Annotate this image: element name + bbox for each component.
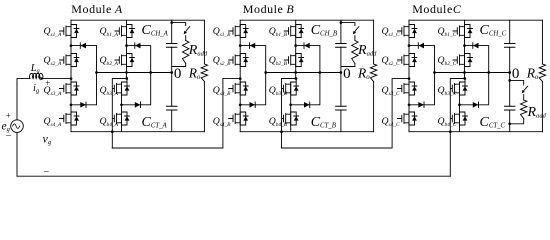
label Qb3_C [438, 85, 457, 97]
label Qb1_A [100, 26, 119, 38]
diode clamp upper second module B [304, 43, 310, 49]
svg-text:Qs1_A: Qs1_A [44, 26, 62, 38]
transistor Qs4_A [60, 112, 79, 125]
arrow R_add_C current [522, 86, 528, 93]
resistor R_o_C in right rail [539, 20, 545, 132]
node second leg mid junction module B [295, 77, 298, 80]
svg-text:Qb2_C: Qb2_C [438, 55, 457, 67]
wire second leg lower module C [460, 79, 466, 132]
label Qs2_B [213, 55, 231, 67]
diode clamp lower left module B [250, 102, 256, 108]
svg-text:Qb4_B: Qb4_B [269, 116, 288, 128]
node second leg mid junction module A [125, 77, 128, 80]
ac source eg [11, 84, 24, 176]
svg-text:vg: vg [43, 132, 52, 147]
svg-text:Qb1_B: Qb1_B [269, 26, 288, 38]
wire bottom bus module A [71, 131, 204, 133]
svg-text:Qs2_A: Qs2_A [44, 55, 62, 67]
wire interconnect module B to next [282, 77, 411, 148]
node 0 module C [512, 66, 520, 82]
transistor Qb4_C [451, 112, 468, 125]
transistor Qb4_B [282, 112, 299, 125]
label Qb3_B [269, 85, 288, 97]
svg-text:−: − [6, 131, 12, 142]
resistor R_add_A [170, 21, 189, 66]
label Qb4_C [438, 116, 457, 128]
svg-text:Module B: Module B [243, 2, 295, 16]
label Qb4_B [269, 116, 288, 128]
svg-text:Qb3_A: Qb3_A [100, 85, 119, 97]
capacitor C_CT_A [167, 106, 177, 110]
transistor Qs3_C [398, 82, 417, 95]
wire capacitor rail module C [509, 20, 511, 132]
diode clamp lower second module C [473, 102, 479, 108]
wire capacitor rail module B [340, 20, 342, 132]
node 0 module B [343, 66, 351, 82]
svg-text:CCT_B: CCT_B [311, 115, 336, 130]
svg-text:Ro: Ro [526, 66, 539, 82]
resistor R_add_C [508, 79, 527, 125]
transistor Qb1_B [284, 25, 303, 38]
diode clamp upper left module A [80, 43, 86, 49]
wire left leg module C [408, 20, 410, 132]
arrow R_add_B current [353, 27, 359, 35]
svg-text:ModuleC: ModuleC [412, 2, 462, 16]
transistor Qs1_A [60, 25, 79, 38]
diode clamp upper second module A [135, 43, 141, 49]
wire second leg jog module C [449, 79, 465, 177]
label - (source) [6, 131, 12, 142]
transistor Qs2_B [229, 54, 248, 67]
wire clamp chain second leg module C [458, 44, 489, 106]
label Qs1_A [44, 26, 62, 38]
node 0 module A [174, 66, 182, 82]
transistor Qs4_B [229, 112, 248, 125]
label R_add_B [357, 43, 377, 58]
capacitor C_CH_B [336, 44, 346, 48]
label Qb2_A [100, 55, 119, 67]
label Qs3_B [213, 85, 231, 97]
wire top rail module A [71, 19, 204, 21]
label C_CH_B [311, 23, 337, 38]
svg-text:Qs4_C: Qs4_C [382, 116, 400, 128]
transistor Qs4_C [398, 112, 417, 125]
Module C title [412, 2, 462, 16]
label R_o_C [526, 66, 539, 82]
svg-text:Qb3_B: Qb3_B [269, 85, 288, 97]
svg-text:CCT_A: CCT_A [142, 115, 168, 130]
transistor Qs3_A [60, 82, 79, 95]
transistor Qb1_A [115, 25, 134, 38]
label - (vg) [44, 166, 50, 177]
label Qs2_A [44, 55, 62, 67]
label R_add_A [188, 43, 208, 58]
svg-text:Qb2_A: Qb2_A [100, 55, 119, 67]
svg-text:Module A: Module A [71, 2, 123, 16]
wire clamp chain left leg module C [408, 44, 435, 106]
transistor Qb3_B [282, 82, 299, 95]
resistor R_o_B in right rail [370, 20, 376, 132]
diode clamp upper left module C [418, 43, 424, 49]
svg-text:Qs2_B: Qs2_B [213, 55, 231, 67]
capacitor C_CH_A [167, 44, 177, 48]
label R_add_C [527, 105, 547, 120]
svg-text:Qb3_C: Qb3_C [438, 85, 457, 97]
svg-text:Qs4_B: Qs4_B [213, 116, 231, 128]
label Qs4_B [213, 116, 231, 128]
capacitor C_CT_B [336, 106, 346, 110]
svg-text:Ro: Ro [188, 66, 201, 82]
wire inductor to module A with ig arrow [40, 77, 72, 80]
transistor Qb3_C [451, 82, 468, 95]
svg-text:Ro: Ro [357, 66, 370, 82]
wire second leg lower module B [291, 79, 297, 132]
wire bottom bus module C [409, 131, 542, 133]
transistor Qb2_B [284, 54, 303, 67]
capacitor C_CH_C [505, 44, 515, 48]
label Qs2_C [382, 55, 400, 67]
transistor Qs1_C [398, 25, 417, 38]
diode clamp lower left module C [418, 102, 424, 108]
resistor R_o_A in right rail [201, 20, 207, 132]
wire bottom return [17, 175, 450, 177]
svg-text:0: 0 [174, 66, 182, 82]
wire top rail module B [240, 19, 373, 21]
wire clamp chain left leg module B [239, 44, 266, 106]
wire clamp chain left leg module A [70, 44, 97, 106]
label R_o_B [357, 66, 370, 82]
wire interconnect module A to next [112, 77, 241, 148]
svg-text:Radd: Radd [527, 105, 547, 120]
transistor Qb3_A [113, 82, 130, 95]
svg-text:Qb4_A: Qb4_A [100, 116, 119, 128]
transistor Qb2_A [115, 54, 134, 67]
transistor Qb2_C [453, 54, 472, 67]
wire second leg jog module A [111, 79, 127, 149]
svg-text:Qs4_A: Qs4_A [44, 116, 62, 128]
label Qb2_B [269, 55, 288, 67]
label Qs4_A [44, 116, 62, 128]
svg-text:Lg: Lg [30, 63, 40, 75]
transistor Qb4_A [113, 112, 130, 125]
label Qs3_C [382, 85, 400, 97]
label Qs3_A [44, 85, 62, 97]
label + (source) [6, 110, 11, 120]
diode clamp upper left module B [250, 43, 256, 49]
diode clamp upper second module C [473, 43, 479, 49]
label eg [2, 121, 11, 134]
node second leg mid junction module C [463, 77, 466, 80]
label R_o_A [188, 66, 201, 82]
svg-text:Qb2_B: Qb2_B [269, 55, 288, 67]
wire mid node module C [433, 71, 511, 74]
label vg [43, 132, 52, 147]
Module A title [71, 2, 123, 16]
wire clamp chain second leg module B [289, 44, 320, 106]
Module B title [243, 2, 295, 16]
wire second leg jog module B [280, 79, 296, 149]
transistor Qs3_B [229, 82, 248, 95]
label Qb1_B [269, 26, 288, 38]
resistor R_add_B [340, 21, 359, 66]
transistor Qs2_A [60, 54, 79, 67]
svg-text:0: 0 [512, 66, 520, 82]
svg-text:Qb4_C: Qb4_C [438, 116, 457, 128]
svg-text:Qs3_C: Qs3_C [382, 85, 400, 97]
diode clamp lower left module A [80, 102, 86, 108]
transistor Qs2_C [398, 54, 417, 67]
wire second leg upper module A [126, 20, 128, 78]
label Qs1_C [382, 26, 400, 38]
transistor Qs1_B [229, 25, 248, 38]
svg-text:CCH_C: CCH_C [480, 23, 507, 38]
svg-text:Qb1_A: Qb1_A [100, 26, 119, 38]
wire second leg lower module A [122, 79, 128, 132]
label Qb4_A [100, 116, 119, 128]
wire top rail module C [409, 19, 542, 21]
wire left leg module B [239, 20, 241, 132]
arrow R_add_A current [184, 27, 190, 35]
svg-text:−: − [44, 166, 50, 177]
wire clamp chain second leg module A [120, 44, 151, 106]
label C_CH_C [480, 23, 507, 38]
transistor Qb1_C [453, 25, 472, 38]
wire second leg upper module B [295, 20, 297, 78]
wire mid node module B [264, 71, 342, 74]
svg-text:CCT_C: CCT_C [480, 115, 506, 130]
label Lg [30, 63, 40, 75]
label C_CT_A [142, 115, 168, 130]
svg-text:Qs3_B: Qs3_B [213, 85, 231, 97]
wire second leg upper module C [464, 20, 466, 78]
label Qs1_B [213, 26, 231, 38]
svg-text:Qs1_B: Qs1_B [213, 26, 231, 38]
svg-text:+: + [6, 110, 11, 120]
diode clamp lower second module B [304, 102, 310, 108]
wire capacitor rail module A [171, 20, 173, 132]
svg-text:CCH_A: CCH_A [142, 23, 169, 38]
label + (vg) [45, 78, 50, 88]
inductor Lg [30, 73, 43, 78]
svg-text:Qb1_C: Qb1_C [438, 26, 457, 38]
label ig [33, 83, 40, 95]
diode clamp lower second module A [135, 102, 141, 108]
capacitor C_CT_C [505, 106, 515, 110]
label Qs4_C [382, 116, 400, 128]
label Qb2_C [438, 55, 457, 67]
label C_CH_A [142, 23, 169, 38]
svg-text:Qs1_C: Qs1_C [382, 26, 400, 38]
label Qb3_A [100, 85, 119, 97]
svg-text:Qs2_C: Qs2_C [382, 55, 400, 67]
svg-text:0: 0 [343, 66, 351, 82]
svg-text:CCH_B: CCH_B [311, 23, 337, 38]
svg-text:ig: ig [33, 83, 40, 95]
label C_CT_B [311, 115, 336, 130]
wire bottom bus module B [240, 131, 373, 133]
wire grid top [17, 79, 30, 84]
label Qb1_C [438, 26, 457, 38]
svg-text:Qs3_A: Qs3_A [44, 85, 62, 97]
wire left leg module A [70, 20, 72, 132]
wire mid node module A [95, 71, 173, 74]
label C_CT_C [480, 115, 506, 130]
